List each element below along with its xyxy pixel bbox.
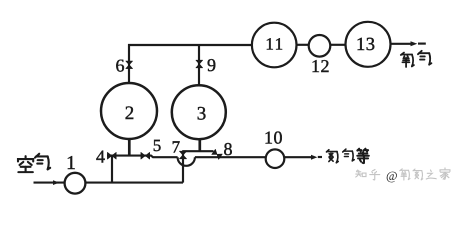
svg-text:8: 8 [224, 139, 233, 159]
svg-text:1: 1 [66, 153, 76, 174]
svg-text:9: 9 [207, 55, 216, 75]
svg-text:7: 7 [172, 138, 181, 157]
svg-text:@: @ [386, 169, 398, 183]
svg-text:5: 5 [153, 136, 162, 155]
svg-text:6: 6 [116, 56, 125, 76]
svg-text:3: 3 [197, 104, 207, 125]
svg-text:12: 12 [311, 56, 330, 76]
svg-text:10: 10 [264, 128, 283, 148]
svg-text:4: 4 [96, 147, 105, 167]
svg-text:2: 2 [125, 103, 135, 124]
svg-text:13: 13 [356, 35, 376, 55]
svg-text:11: 11 [265, 34, 284, 53]
